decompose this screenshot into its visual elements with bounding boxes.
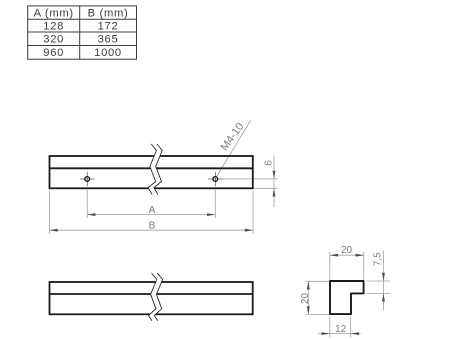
svg-text:B (mm): B (mm) xyxy=(88,7,129,19)
svg-text:12: 12 xyxy=(335,324,347,335)
svg-text:6: 6 xyxy=(264,160,275,166)
svg-text:A (mm): A (mm) xyxy=(34,7,74,19)
svg-text:B: B xyxy=(149,221,156,232)
svg-text:A: A xyxy=(149,205,156,216)
svg-text:20: 20 xyxy=(300,293,311,305)
svg-text:172: 172 xyxy=(98,21,119,33)
svg-text:128: 128 xyxy=(43,21,64,33)
svg-text:7,5: 7,5 xyxy=(373,252,384,266)
svg-text:960: 960 xyxy=(43,47,64,59)
svg-text:365: 365 xyxy=(98,34,119,46)
svg-text:20: 20 xyxy=(341,245,353,256)
svg-text:1000: 1000 xyxy=(94,47,122,59)
svg-text:320: 320 xyxy=(43,34,64,46)
